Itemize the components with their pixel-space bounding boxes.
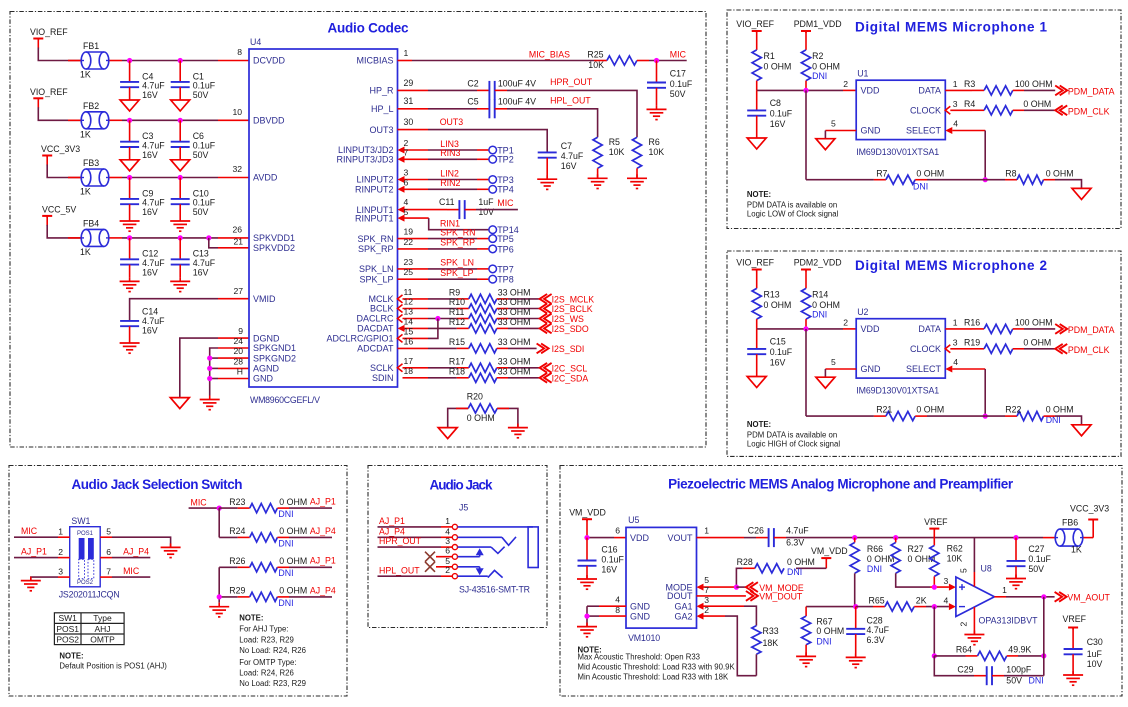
svg-text:0 OHM: 0 OHM <box>1023 338 1051 348</box>
svg-text:100pF: 100pF <box>1006 665 1032 675</box>
wire SELECT down <box>984 131 986 180</box>
op-amp U8 <box>956 577 995 617</box>
svg-text:16V: 16V <box>142 150 158 160</box>
junction dot MIC node <box>654 58 659 63</box>
svg-text:R1: R1 <box>764 51 775 61</box>
SW1 dashed contacts <box>79 559 85 578</box>
svg-text:7: 7 <box>404 147 409 157</box>
svg-text:DACLRC: DACLRC <box>356 314 394 324</box>
svg-text:4.7uF: 4.7uF <box>142 316 165 326</box>
capacitor C14 <box>120 320 139 322</box>
ground (earth) <box>179 277 181 281</box>
wire bead to pin <box>110 119 123 121</box>
svg-text:R6: R6 <box>649 137 660 147</box>
svg-text:VM_VDD: VM_VDD <box>569 507 606 517</box>
svg-text:VOUT: VOUT <box>667 533 693 543</box>
svg-text:16V: 16V <box>142 268 158 278</box>
junction dot fb right <box>1041 653 1046 658</box>
wire RIN3 <box>428 158 477 160</box>
svg-text:4.7uF: 4.7uF <box>867 625 890 635</box>
wire to R7 <box>806 179 874 181</box>
svg-text:AGND: AGND <box>253 364 280 374</box>
svg-text:U8: U8 <box>981 564 992 574</box>
svg-text:AJ_P4: AJ_P4 <box>310 585 336 595</box>
svg-text:FB2: FB2 <box>83 101 99 111</box>
svg-text:3: 3 <box>953 99 958 109</box>
pin arrow 14 <box>398 325 405 332</box>
svg-text:R66: R66 <box>867 544 883 554</box>
wire to R64 <box>934 655 965 657</box>
svg-text:5: 5 <box>106 527 111 537</box>
svg-text:VMID: VMID <box>253 294 276 304</box>
resistor R22 <box>1017 412 1044 421</box>
power symbol VCC_3V3 <box>42 155 52 157</box>
svg-text:PDM DATA is available on: PDM DATA is available on <box>747 201 837 210</box>
wire HP_L to C5 <box>428 108 477 110</box>
resistor R1 <box>756 32 758 50</box>
svg-text:16V: 16V <box>561 161 577 171</box>
pin stub pin 20 SPKGND2 <box>218 357 249 359</box>
svg-text:C17: C17 <box>670 68 686 78</box>
ferrite bead FB4 <box>81 229 91 246</box>
svg-text:RINPUT1: RINPUT1 <box>355 213 394 223</box>
pin 23 stub SPK_LN <box>398 268 429 270</box>
resistor R6 <box>632 137 641 168</box>
resistor R65 <box>885 602 914 611</box>
svg-text:R3: R3 <box>964 79 975 89</box>
pin 1 stub opamp out <box>994 596 1006 598</box>
wire R3 to offpage <box>1013 89 1024 91</box>
wire opamp out <box>1006 596 1055 598</box>
wire SW1 pin5 <box>100 536 112 538</box>
svg-text:R2: R2 <box>812 51 823 61</box>
svg-text:9: 9 <box>238 326 243 336</box>
wire R5 to gnd <box>597 168 599 178</box>
junction dot <box>127 58 132 63</box>
svg-text:0 OHM: 0 OHM <box>787 557 815 567</box>
capacitor C15 <box>756 329 758 349</box>
wire AGND <box>210 367 218 369</box>
svg-text:VM_VDD: VM_VDD <box>811 546 848 556</box>
ground (triangle) GND pin <box>816 377 835 388</box>
svg-text:U5: U5 <box>628 515 639 525</box>
ground (triangle) <box>120 160 139 171</box>
svg-text:C29: C29 <box>957 665 973 675</box>
svg-text:17: 17 <box>404 356 414 366</box>
pin 6 stub <box>405 188 429 190</box>
svg-text:R62: R62 <box>947 544 963 554</box>
wire R64 right <box>1007 655 1018 657</box>
svg-text:R26: R26 <box>229 556 245 566</box>
resistor R15 <box>469 344 497 353</box>
wire MODE to offpage <box>736 586 746 588</box>
svg-text:R20: R20 <box>467 391 483 401</box>
svg-text:C7: C7 <box>561 141 572 151</box>
junction dot VDD <box>803 326 808 331</box>
section border: Audio Jack Selection Switch <box>9 466 347 697</box>
wire R11 to offpage <box>497 318 508 320</box>
ground (triangle) <box>171 160 190 171</box>
svg-text:0 OHM: 0 OHM <box>916 405 944 415</box>
svg-text:DCVDD: DCVDD <box>253 56 286 66</box>
wire SW1 pin1 <box>14 536 58 538</box>
svg-text:4: 4 <box>404 197 409 207</box>
svg-text:LIN2: LIN2 <box>440 168 459 178</box>
ground (triangle) R20 <box>438 428 457 439</box>
svg-text:GND: GND <box>861 126 882 136</box>
svg-text:33 OHM: 33 OHM <box>498 366 531 376</box>
capacitor C16 <box>586 538 588 561</box>
resistor R21 <box>886 412 915 421</box>
ground (earth) R20 <box>517 424 519 428</box>
input arrow GA1 <box>697 603 704 610</box>
svg-text:R64: R64 <box>956 644 972 654</box>
svg-text:GND: GND <box>253 374 274 384</box>
svg-text:1K: 1K <box>80 70 91 80</box>
svg-text:POS1: POS1 <box>56 624 79 634</box>
svg-text:3: 3 <box>404 168 409 178</box>
pin stub pin 27 VMID <box>218 298 249 300</box>
svg-text:33 OHM: 33 OHM <box>498 356 531 366</box>
svg-text:0 OHM: 0 OHM <box>812 300 840 310</box>
svg-text:DNI: DNI <box>278 509 293 519</box>
wire R9 to offpage <box>497 298 508 300</box>
svg-text:CLOCK: CLOCK <box>910 344 941 354</box>
resistor R33 <box>752 626 761 655</box>
wire R21 to dot <box>915 415 927 417</box>
wire bead to pin <box>110 237 123 239</box>
svg-text:30: 30 <box>404 117 414 127</box>
wire C29 left <box>934 656 974 676</box>
svg-text:AJ_P4: AJ_P4 <box>123 547 149 557</box>
svg-text:DNI: DNI <box>278 598 293 608</box>
pin 25 stub SPK_LP <box>398 278 429 280</box>
svg-text:C11: C11 <box>439 197 455 207</box>
svg-text:0 OHM: 0 OHM <box>1023 99 1051 109</box>
svg-text:7: 7 <box>106 567 111 577</box>
junction dot <box>127 175 132 180</box>
svg-text:0 OHM: 0 OHM <box>279 556 307 566</box>
wire VM_VDD <box>586 520 588 538</box>
svg-text:R16: R16 <box>964 318 980 328</box>
svg-text:31: 31 <box>404 96 414 106</box>
section border: Digital MEMS Microphone 1 <box>727 10 1121 229</box>
wire R28 left <box>743 567 755 569</box>
pin 3 stub <box>405 179 429 181</box>
svg-text:R22: R22 <box>1005 405 1021 415</box>
wire R66 bottom <box>854 573 856 606</box>
pin stub pin 21 <box>218 247 249 249</box>
svg-text:10K: 10K <box>588 60 604 70</box>
svg-text:50V: 50V <box>193 207 209 217</box>
svg-text:R15: R15 <box>449 337 465 347</box>
ground (earth) SW1 pin3 <box>30 577 32 581</box>
svg-text:2: 2 <box>58 547 63 557</box>
wire matrix col upper <box>218 508 220 537</box>
svg-text:MIC: MIC <box>497 198 514 208</box>
svg-text:TP7: TP7 <box>497 264 514 274</box>
svg-text:100uF 4V: 100uF 4V <box>498 97 536 107</box>
svg-text:R4: R4 <box>964 99 975 109</box>
pin arrow 12 <box>398 305 403 313</box>
svg-text:6: 6 <box>615 526 620 536</box>
ground (triangle) select net <box>1072 425 1091 436</box>
junction dot <box>127 118 132 123</box>
svg-text:VIO_REF: VIO_REF <box>30 87 68 97</box>
pin stub pin 26 <box>218 237 249 239</box>
ground (triangle) C8 <box>747 138 766 149</box>
capacitor C29 <box>986 666 988 685</box>
svg-text:RIN2: RIN2 <box>440 178 460 188</box>
svg-text:21: 21 <box>233 236 243 246</box>
capacitor C7 <box>538 151 557 153</box>
svg-text:PDM DATA is available on: PDM DATA is available on <box>747 430 837 439</box>
svg-text:SPK_RN: SPK_RN <box>440 227 475 237</box>
svg-text:20: 20 <box>233 346 243 356</box>
svg-text:MIC: MIC <box>191 497 208 507</box>
junction dot <box>207 356 212 361</box>
ground (earth) C27 <box>1015 575 1017 579</box>
svg-text:C26: C26 <box>748 526 764 536</box>
svg-text:TP6: TP6 <box>497 244 514 254</box>
pin 15 stub ADCLRC <box>403 337 429 339</box>
pin 3 stub CLOCK <box>950 109 972 111</box>
svg-text:VDD: VDD <box>861 324 881 334</box>
svg-text:VM_DOUT: VM_DOUT <box>759 592 803 602</box>
resistor R23 <box>250 504 278 513</box>
input arrow opamp minus <box>949 603 956 610</box>
pin 1 stub MICBIAS <box>398 60 413 62</box>
svg-text:HPR_OUT: HPR_OUT <box>550 77 593 87</box>
svg-text:0 OHM: 0 OHM <box>467 413 495 423</box>
wire VDD net <box>756 81 758 91</box>
svg-text:10V: 10V <box>1087 659 1103 669</box>
svg-text:0.1uF: 0.1uF <box>670 79 693 89</box>
svg-text:3: 3 <box>445 536 450 546</box>
wire to R3 <box>972 89 984 91</box>
junction dot DACLRC/ADCLRC <box>435 316 440 321</box>
offpage connector I2S_WS <box>540 314 548 324</box>
svg-text:Audio Jack: Audio Jack <box>430 478 493 493</box>
svg-text:SPK_LP: SPK_LP <box>359 274 393 284</box>
jack pin circle 4 <box>452 535 457 540</box>
ground (earth) U5 GND <box>586 623 588 627</box>
wire R26 out <box>277 566 289 568</box>
svg-text:8: 8 <box>615 605 620 615</box>
wire R65 left <box>806 606 852 608</box>
wire dot to R8 <box>985 179 1005 181</box>
svg-text:11: 11 <box>404 287 413 297</box>
jack J5 tip2 contact <box>458 575 488 577</box>
resistor R10 <box>469 304 497 313</box>
svg-text:SPKVDD2: SPKVDD2 <box>253 243 295 253</box>
svg-text:R5: R5 <box>609 137 620 147</box>
input arrow pin 7 <box>398 156 405 163</box>
pin arrow CLOCK <box>945 106 950 114</box>
svg-text:0 OHM: 0 OHM <box>279 586 307 596</box>
svg-text:2: 2 <box>445 565 450 575</box>
svg-text:Logic LOW of Clock signal: Logic LOW of Clock signal <box>747 210 839 219</box>
svg-text:PDM_CLK: PDM_CLK <box>1068 345 1110 355</box>
svg-text:VM1010: VM1010 <box>628 633 660 643</box>
op IC U4 box <box>249 49 398 387</box>
svg-text:16V: 16V <box>142 326 158 336</box>
svg-text:R19: R19 <box>964 338 980 348</box>
svg-text:VCC_3V3: VCC_3V3 <box>41 144 80 154</box>
test point TP5 <box>489 235 497 243</box>
test point TP6 <box>489 245 497 253</box>
svg-text:Piezoelectric MEMS Analog Micr: Piezoelectric MEMS Analog Microphone and… <box>668 477 1014 492</box>
svg-text:SPK_RN: SPK_RN <box>357 234 393 244</box>
ground (earth) GND bus <box>209 396 211 400</box>
wire VDD column down <box>805 329 807 416</box>
resistor R66 <box>854 538 856 543</box>
svg-text:DACDAT: DACDAT <box>357 324 394 334</box>
op IC U1 box <box>856 80 945 139</box>
capacitor C11 <box>447 209 459 211</box>
svg-text:DBVDD: DBVDD <box>253 116 285 126</box>
wire VIO_REF row <box>37 99 39 108</box>
svg-text:HP_L: HP_L <box>371 104 394 114</box>
resistor R13 <box>756 271 758 289</box>
power symbol VREF right <box>1068 627 1078 629</box>
capacitor C8 <box>756 90 758 110</box>
wire SPK_RP <box>428 248 477 250</box>
pin stub pin 8 <box>218 60 249 62</box>
svg-text:VIO_REF: VIO_REF <box>736 19 774 29</box>
capacitor C1 <box>179 61 181 82</box>
offpage connector I2S_MCLK <box>540 294 548 304</box>
svg-text:DATA: DATA <box>918 86 941 96</box>
junction dot <box>207 366 212 371</box>
jack J5 sleeve <box>458 526 534 528</box>
ground (triangle) select net <box>1072 188 1091 199</box>
svg-text:AVDD: AVDD <box>253 173 278 183</box>
wire R16 to offpage <box>1013 328 1024 330</box>
wire to R18 <box>428 377 457 379</box>
junction dot plus input <box>932 585 937 590</box>
svg-text:C15: C15 <box>770 337 786 347</box>
svg-text:Audio Codec: Audio Codec <box>328 21 409 36</box>
svg-text:3: 3 <box>944 576 949 586</box>
svg-text:TP2: TP2 <box>497 155 514 165</box>
wire C11 to MIC <box>465 209 476 211</box>
pin 22 stub SPK_RP <box>398 248 429 250</box>
SW1 contact bar B <box>88 538 94 559</box>
svg-text:0 OHM: 0 OHM <box>916 168 944 178</box>
capacitor C28 <box>855 607 857 629</box>
junction dot C28 top <box>853 604 858 609</box>
offpage connector VM_DOUT <box>746 591 754 601</box>
wire RIN1 <box>429 218 489 230</box>
wire HPL_OUT <box>495 108 507 110</box>
wire to R21 <box>806 415 874 417</box>
svg-text:DATA: DATA <box>918 324 941 334</box>
wire feedback left <box>933 607 935 656</box>
pin 5 stub RINPUT1 <box>405 217 429 219</box>
wire R4 to offpage <box>1013 109 1024 111</box>
resistor R17 <box>469 363 497 372</box>
svg-text:AJ_P1: AJ_P1 <box>310 556 336 566</box>
svg-text:GND: GND <box>861 364 882 374</box>
wire VDD net <box>756 319 758 329</box>
svg-text:28: 28 <box>233 356 243 366</box>
power symbol VIO_REF <box>752 30 762 32</box>
junction dot SELECT <box>983 414 988 419</box>
pin stub pin 9 DGND <box>218 337 249 339</box>
svg-text:NOTE:: NOTE: <box>747 190 771 199</box>
ground (triangle) GND pin <box>816 139 835 150</box>
no-connect X pin 6 <box>425 552 435 562</box>
pin 4 stub LINPUT1 <box>405 209 448 211</box>
resistor R24 <box>250 533 278 542</box>
svg-text:ADCLRC/GPIO1: ADCLRC/GPIO1 <box>326 334 393 344</box>
svg-text:19: 19 <box>404 227 414 237</box>
ground (earth) <box>129 277 131 281</box>
input arrow GA2 <box>697 613 704 620</box>
svg-text:R17: R17 <box>449 356 465 366</box>
svg-text:1: 1 <box>953 79 958 89</box>
ground (earth) R6 <box>636 174 638 178</box>
wire to R23 <box>219 507 238 509</box>
pin stub pin H GND <box>218 378 249 380</box>
svg-text:IM69D130V01XTSA1: IM69D130V01XTSA1 <box>856 386 939 396</box>
wire R23 out <box>277 507 289 509</box>
svg-text:DNI: DNI <box>278 568 293 578</box>
svg-text:FB3: FB3 <box>83 158 99 168</box>
pin 2 stub <box>405 149 429 151</box>
capacitor C30 <box>1072 628 1074 649</box>
no-connect X pin 5 <box>425 562 435 572</box>
svg-text:RINPUT3/JD3: RINPUT3/JD3 <box>336 155 393 165</box>
pin stub pin 24 SPKGND1 <box>218 347 249 349</box>
svg-text:50V: 50V <box>670 89 686 99</box>
wire dot to R22 <box>985 415 1005 417</box>
svg-text:TP4: TP4 <box>497 185 514 195</box>
svg-text:16V: 16V <box>142 207 158 217</box>
power symbol PDM2_VDD <box>801 269 811 271</box>
svg-text:R33: R33 <box>763 626 779 636</box>
svg-text:4.7uF: 4.7uF <box>561 151 584 161</box>
junction dot <box>207 376 212 381</box>
svg-text:5: 5 <box>831 119 836 129</box>
svg-text:18: 18 <box>404 366 414 376</box>
svg-text:C28: C28 <box>867 616 883 626</box>
wire R20 left <box>448 408 469 427</box>
pin 1 stub VOUT <box>697 537 745 539</box>
svg-text:33 OHM: 33 OHM <box>498 337 531 347</box>
svg-text:Digital MEMS Microphone 2: Digital MEMS Microphone 2 <box>855 258 1047 273</box>
wire VCC_5V row <box>46 217 48 226</box>
wire to R16 <box>972 328 984 330</box>
svg-text:AJ_P1: AJ_P1 <box>21 547 47 557</box>
resistor R25 <box>607 56 637 65</box>
svg-text:R11: R11 <box>449 307 465 317</box>
wire HPR_OUT <box>495 89 507 91</box>
pin 7 stub DOUT <box>697 595 746 597</box>
svg-text:R8: R8 <box>1005 168 1016 178</box>
svg-text:0 OHM: 0 OHM <box>764 300 792 310</box>
pin 4 stub SELECT <box>952 130 985 132</box>
svg-text:VM_AOUT: VM_AOUT <box>1067 593 1110 603</box>
svg-text:Type: Type <box>93 613 112 623</box>
ground (earth) C14 <box>129 339 131 343</box>
svg-text:IM69D130V01XTSA1: IM69D130V01XTSA1 <box>856 147 939 157</box>
svg-text:NOTE:: NOTE: <box>239 614 263 623</box>
svg-text:PDM_DATA: PDM_DATA <box>1068 325 1115 335</box>
resistor R3 <box>984 86 1013 95</box>
junction dot <box>178 118 183 123</box>
